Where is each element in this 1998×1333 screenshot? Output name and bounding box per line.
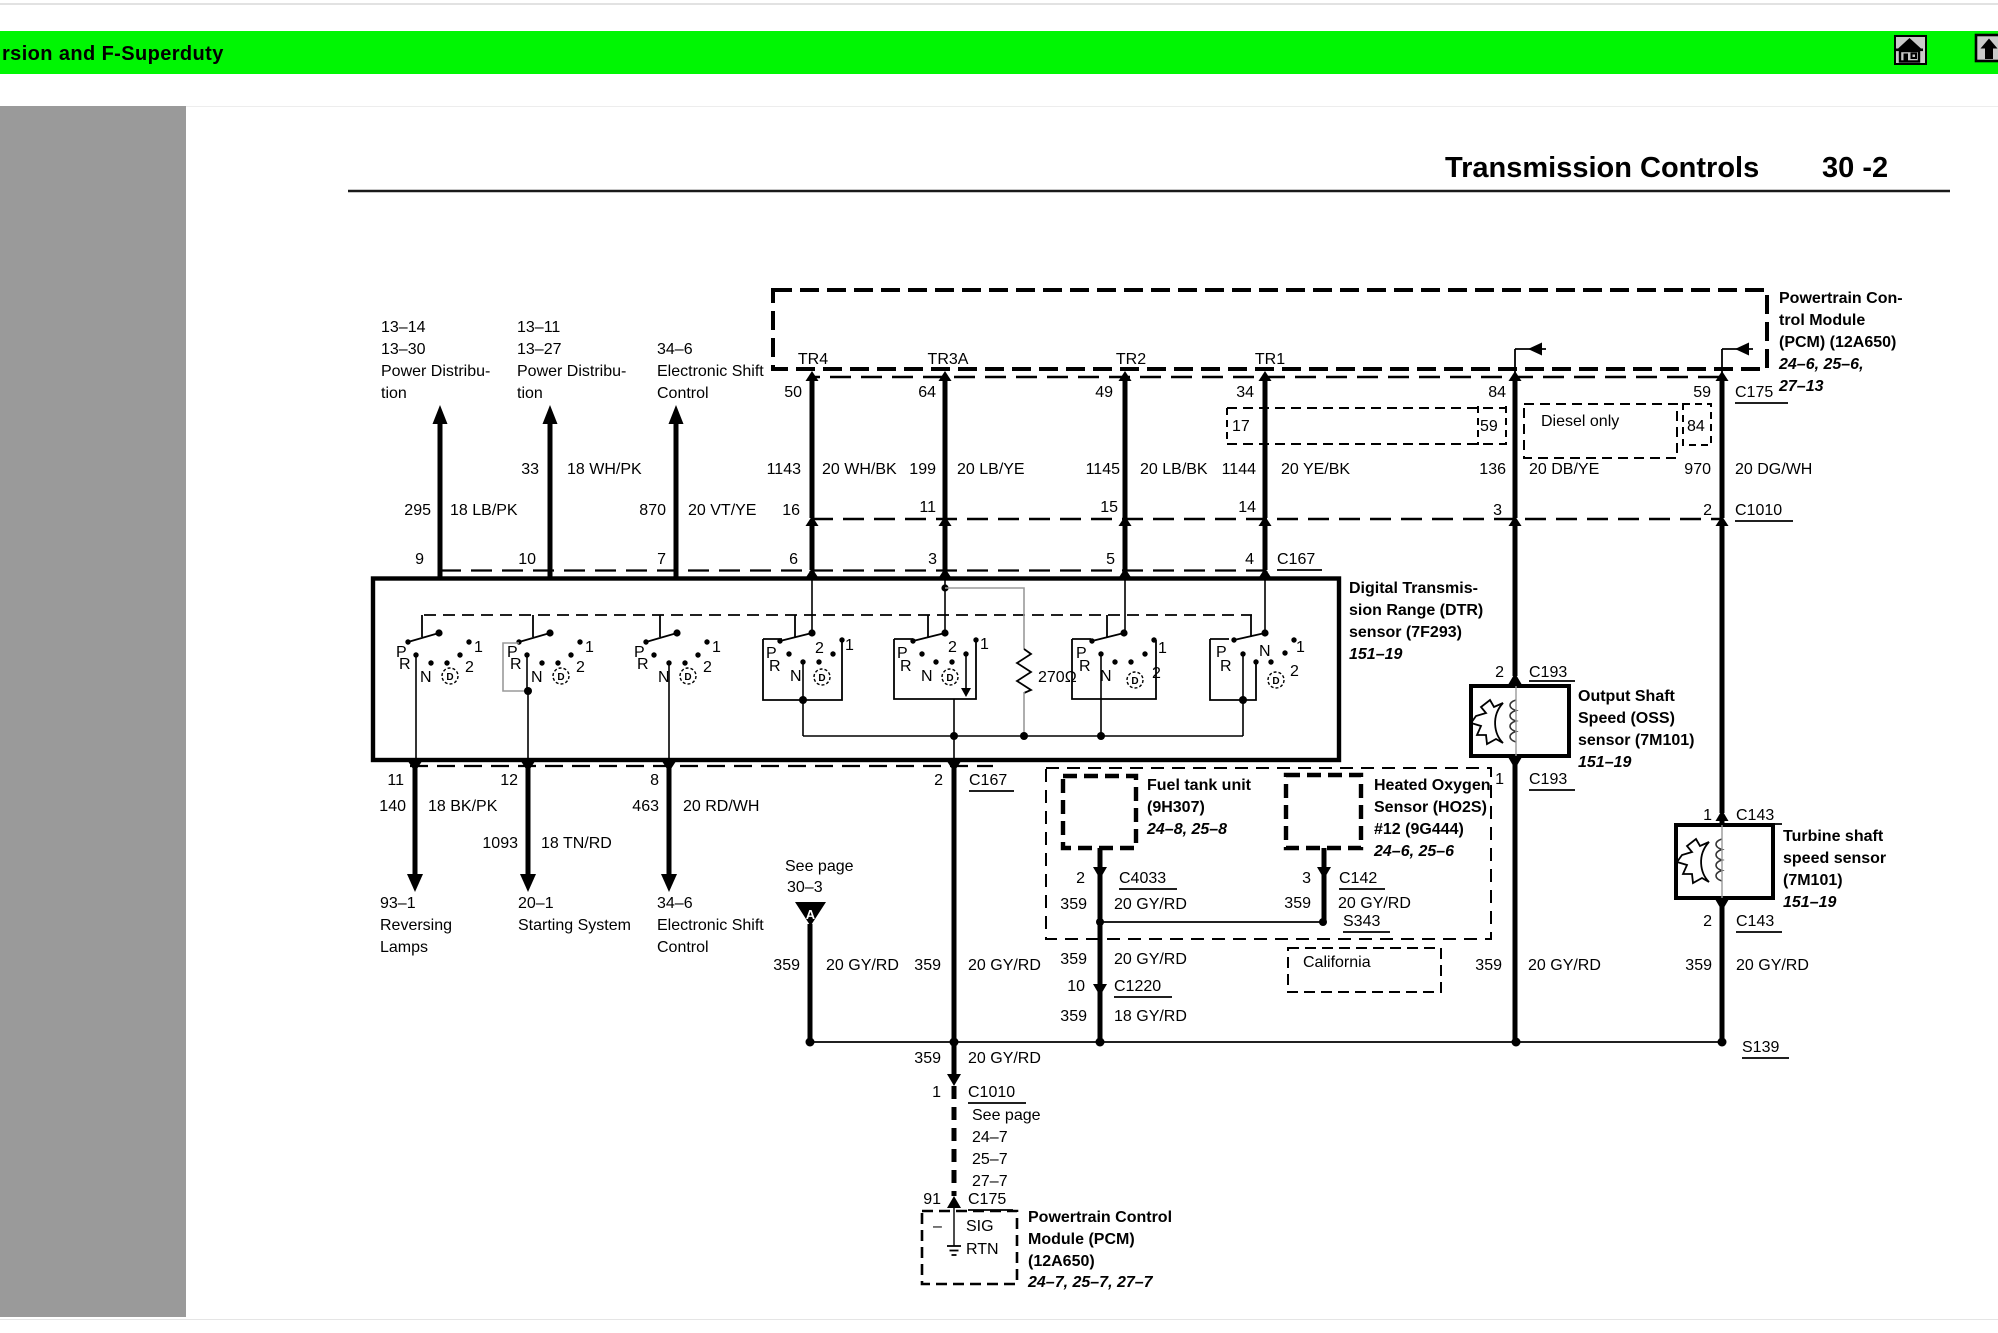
svg-text:N: N [921,668,933,685]
svg-text:30 -2: 30 -2 [1822,152,1888,184]
svg-text:270Ω: 270Ω [1038,669,1077,686]
svg-text:20 GY/RD: 20 GY/RD [1338,895,1411,912]
svg-text:151–19: 151–19 [1349,646,1402,663]
svg-text:Module (PCM): Module (PCM) [1028,1231,1135,1248]
svg-text:C175: C175 [1735,384,1773,401]
svg-text:C167: C167 [1277,551,1315,568]
svg-text:2: 2 [465,659,474,676]
svg-text:20 VT/YE: 20 VT/YE [688,502,756,519]
connector C143 label (top) [1736,807,1782,824]
svg-text:359: 359 [1284,895,1311,912]
pin 84 (diesel) dashed box [1683,404,1711,445]
svg-text:870: 870 [639,502,666,519]
connector C175 pin arrow up [947,1196,961,1208]
connector C1220 label [1114,978,1172,997]
up-arrow button (cut at right edge) [1976,35,1998,61]
connector C167 label (top) [1277,551,1322,570]
svg-text:C193: C193 [1529,771,1567,788]
connector C175 label (bottom) [968,1191,1013,1210]
svg-text:N: N [790,668,802,685]
green header bar [0,31,1998,74]
wire from node A (359 20 GY/RD) [808,924,813,1042]
node junction A-bus [806,1038,815,1047]
wire to Electronic Shift Control (463 20 RD/WH) [661,762,677,892]
svg-text:136: 136 [1479,461,1506,478]
wire OSS signal from PCM pin 84 with continuation flag [1509,343,1547,687]
svg-text:24–6, 25–6: 24–6, 25–6 [1373,843,1454,860]
value label circuit 1145 20 LB/BK [1086,461,1208,478]
connector C167 dashed line (top) [440,569,1266,571]
svg-text:TR1: TR1 [1255,351,1285,368]
wire to Electronic Shift Control (circuit 870 20 VT/YE) with up arrow [669,405,684,577]
svg-text:(PCM) (12A650): (PCM) (12A650) [1779,334,1896,351]
wire SW7 R-contact to resistor bus end [1242,654,1244,736]
svg-text:20 GY/RD: 20 GY/RD [1114,896,1187,913]
svg-text:2: 2 [576,659,585,676]
svg-text:359: 359 [1060,896,1087,913]
wire TSS signal from PCM pin 59 with continuation flag [1716,343,1754,826]
svg-text:34: 34 [1236,384,1254,401]
svg-text:2: 2 [1495,664,1504,681]
svg-text:15: 15 [1100,499,1118,516]
svg-text:34–6: 34–6 [657,895,693,912]
svg-text:R: R [399,656,411,673]
svg-text:18 TN/RD: 18 TN/RD [541,835,612,852]
home icon glyph [1896,38,1923,62]
svg-text:5: 5 [1106,551,1115,568]
svg-text:20 GY/RD: 20 GY/RD [968,957,1041,974]
node 93-1 Reversing Lamps label [380,895,452,956]
svg-text:13–27: 13–27 [517,341,562,358]
wire bus to PCM SIG RTN [952,1042,957,1078]
value label circuit 33 18 WH/PK [521,461,642,478]
svg-text:Diesel only: Diesel only [1541,413,1619,430]
svg-text:sensor (7M101): sensor (7M101) [1578,732,1695,749]
diesel-only alternate pins dashed box with pins 17 and 59 [1227,406,1506,445]
svg-text:2: 2 [815,640,824,657]
node junction fuel-bus [1096,1038,1105,1047]
svg-text:1: 1 [1296,639,1305,656]
OSS sensor label [1578,688,1695,771]
svg-text:C1010: C1010 [1735,502,1782,519]
TSS gear icon [1677,839,1709,883]
svg-text:49: 49 [1095,384,1113,401]
svg-text:1: 1 [845,637,854,654]
svg-text:S139: S139 [1742,1039,1779,1056]
svg-text:59: 59 [1693,384,1711,401]
svg-text:See page: See page [972,1107,1041,1124]
svg-text:D: D [446,672,453,683]
svg-text:Powertrain Control: Powertrain Control [1028,1209,1172,1226]
svg-text:D: D [557,672,564,683]
svg-text:2: 2 [703,659,712,676]
fuel/HO2S outer dashed boundary [1046,768,1491,939]
svg-text:20 GY/RD: 20 GY/RD [826,957,899,974]
svg-text:2: 2 [1152,665,1161,682]
svg-text:N: N [420,669,432,686]
svg-text:sensor (7F293): sensor (7F293) [1349,624,1462,641]
node 34-6 Electronic Shift Control label [657,895,764,956]
svg-text:24–7: 24–7 [972,1129,1008,1146]
wire TR3A from PCM pin 64 [939,371,952,633]
svg-text:Heated Oxygen: Heated Oxygen [1374,777,1490,794]
value label circuit 359 20 GY/RD (node A leg) [773,957,899,974]
svg-text:20 LB/YE: 20 LB/YE [957,461,1025,478]
connector C1010 label [1735,502,1793,521]
svg-text:18 BK/PK: 18 BK/PK [428,798,498,815]
svg-text:(9H307): (9H307) [1147,799,1205,816]
content top hairline [186,106,1998,107]
svg-text:1: 1 [980,636,989,653]
connector C1010 pin 1 arrow [947,1074,961,1086]
svg-text:10: 10 [1067,978,1085,995]
ground symbol [947,1246,961,1255]
value label circuit 1144 20 YE/BK [1222,461,1351,478]
svg-text:295: 295 [404,502,431,519]
svg-text:2: 2 [1703,913,1712,930]
svg-text:140: 140 [379,798,406,815]
svg-text:Lamps: Lamps [380,939,428,956]
svg-text:20 WH/BK: 20 WH/BK [822,461,897,478]
svg-text:Turbine shaft: Turbine shaft [1783,828,1884,845]
svg-text:Control: Control [657,939,709,956]
svg-text:Transmission Controls: Transmission Controls [1445,152,1759,184]
svg-text:24–6, 25–6,: 24–6, 25–6, [1778,356,1864,373]
switch SW6 (TR2) [1072,615,1167,699]
node SW7 output on box edge [1239,696,1247,704]
svg-text:24–7, 25–7, 27–7: 24–7, 25–7, 27–7 [1027,1274,1154,1291]
switch SW5 (TR3A) [894,615,989,699]
svg-text:18 WH/PK: 18 WH/PK [567,461,642,478]
svg-text:93–1: 93–1 [380,895,416,912]
wire SW2 output to pin 12 [527,691,529,762]
fuel tank unit (9H307) dashed box [1063,776,1136,848]
svg-text:sion Range (DTR): sion Range (DTR) [1349,602,1483,619]
svg-text:1: 1 [712,639,721,656]
svg-text:Electronic Shift: Electronic Shift [657,917,764,934]
PCM bottom label [1027,1209,1172,1291]
value label circuit 359 20 GY/RD (fuel) [1060,896,1187,913]
switch SW2 (starting system contact) [507,615,594,686]
wire dashed segment C1010 to C175 [952,1086,957,1196]
California note dashed box [1288,948,1441,992]
svg-text:151–19: 151–19 [1578,754,1631,771]
node HO2S splice junction [1319,918,1327,926]
switch SW3 (electronic shift control contact) [634,615,721,686]
svg-text:17: 17 [1232,418,1250,435]
svg-text:11: 11 [919,499,936,516]
svg-text:18 LB/PK: 18 LB/PK [450,502,518,519]
svg-text:R: R [900,658,912,675]
svg-text:970: 970 [1684,461,1711,478]
top hairline [0,3,1998,5]
svg-text:Digital Transmis-: Digital Transmis- [1349,580,1478,597]
wire to Reversing Lamps (140 18 BK/PK) [407,762,423,892]
OSS gear icon [1471,700,1503,744]
svg-text:C143: C143 [1736,807,1774,824]
svg-text:N: N [658,669,670,686]
svg-text:trol Module: trol Module [1779,312,1865,329]
TSS coil icon [1716,839,1722,881]
wire SW5 output to C167 pin 2 [953,699,955,762]
svg-text:TR4: TR4 [798,351,828,368]
svg-text:SIG: SIG [966,1218,994,1235]
svg-text:C143: C143 [1736,913,1774,930]
svg-text:Power Distribu-: Power Distribu- [517,363,626,380]
svg-text:Fuel tank unit: Fuel tank unit [1147,777,1252,794]
node junction SIGRTN-bus [950,1038,959,1047]
svg-text:14: 14 [1238,499,1256,516]
PCM SIG RTN dashed box [922,1211,1017,1284]
wire SW2 P-contact gray strap [503,643,528,691]
svg-text:C4033: C4033 [1119,870,1166,887]
svg-text:C142: C142 [1339,870,1377,887]
svg-text:1: 1 [1703,807,1712,824]
svg-text:#12 (9G444): #12 (9G444) [1374,821,1464,838]
node bus-resistor [1020,732,1028,740]
value label circuit 359 20 GY/RD (TSS leg) [1685,957,1809,974]
svg-text:27–7: 27–7 [972,1173,1008,1190]
svg-text:91: 91 [923,1191,941,1208]
wire TR1 from PCM pin 34 [1259,371,1272,633]
svg-text:20 GY/RD: 20 GY/RD [968,1050,1041,1067]
HO2S sensor (9G444) dashed box [1286,775,1361,848]
value label circuit 359 20 GY/RD (HO2S) [1284,895,1411,912]
svg-text:359: 359 [1475,957,1502,974]
svg-text:C167: C167 [969,772,1007,789]
value label circuit 359 20 GY/RD (C167 leg) [914,957,1041,974]
svg-text:R: R [637,656,649,673]
connector C167 label (bottom) [969,772,1014,791]
connector C175 dashed line [812,376,1722,378]
connector C167 dashed line (bottom) [410,765,993,767]
value label circuit 136 20 DB/YE [1479,461,1599,478]
svg-text:Output Shaft: Output Shaft [1578,688,1676,705]
svg-text:speed sensor: speed sensor [1783,850,1886,867]
node junction TSS-bus [1718,1038,1727,1047]
svg-text:20 LB/BK: 20 LB/BK [1140,461,1208,478]
svg-text:463: 463 [632,798,659,815]
svg-text:20 RD/WH: 20 RD/WH [683,798,759,815]
svg-text:C175: C175 [968,1191,1006,1208]
svg-text:1: 1 [1495,771,1504,788]
value label circuit 140 18 BK/PK [379,798,497,815]
svg-text:A: A [806,907,816,922]
header text [2,43,224,66]
wire to Starting System (1093 18 TN/RD) [520,762,536,892]
OSS sensor box (7M101) [1471,686,1569,756]
svg-text:Starting System: Starting System [518,917,631,934]
wire inside PCM to ground [953,1208,955,1246]
mechanical linkage dashed line [424,614,1252,616]
svg-text:50: 50 [784,384,802,401]
wire SW2 R-contact to junction [526,655,528,691]
wire TSS to splice S139 [1720,906,1725,1042]
connector C142 label [1339,870,1385,889]
svg-text:8: 8 [650,772,659,789]
svg-text:(12A650): (12A650) [1028,1253,1095,1270]
TSS sensor label [1783,828,1886,911]
svg-text:S343: S343 [1343,913,1380,930]
wire SW4 N-contact to resistor bus [802,662,804,736]
value label circuit 463 20 RD/WH [632,798,759,815]
svg-text:6: 6 [789,551,798,568]
svg-text:20 DG/WH: 20 DG/WH [1735,461,1812,478]
svg-text:Speed (OSS): Speed (OSS) [1578,710,1675,727]
value label circuit 295 18 LB/PK [404,502,518,519]
svg-text:TR3A: TR3A [928,351,969,368]
svg-text:TR2: TR2 [1116,351,1146,368]
svg-text:20 GY/RD: 20 GY/RD [1736,957,1809,974]
svg-text:Control: Control [657,385,709,402]
svg-text:R: R [510,656,522,673]
svg-text:2: 2 [1290,663,1299,680]
node 34-6 Electronic Shift Control label [657,341,764,402]
HO2S label [1373,777,1490,860]
svg-text:359: 359 [914,1050,941,1067]
svg-text:1: 1 [474,639,483,656]
svg-text:1144: 1144 [1222,461,1257,478]
wire SW6 R-contact to resistor bus [1100,654,1102,736]
svg-text:California: California [1303,954,1371,971]
svg-text:3: 3 [1493,502,1502,519]
wire OSS to splice S139 [1513,764,1518,1042]
svg-text:7: 7 [657,551,666,568]
node 20-1 Starting System label [518,895,631,934]
value label circuit 970 20 DG/WH [1684,461,1812,478]
svg-text:64: 64 [918,384,936,401]
svg-text:2: 2 [1076,870,1085,887]
svg-text:359: 359 [1685,957,1712,974]
svg-text:199: 199 [909,461,936,478]
svg-text:33: 33 [521,461,539,478]
svg-text:R: R [1079,658,1091,675]
title rule [348,190,1950,192]
svg-text:RTN: RTN [966,1241,999,1258]
svg-text:1093: 1093 [482,835,518,852]
wire splice S343 horizontal [1100,921,1323,923]
svg-text:84: 84 [1488,384,1506,401]
value label circuit 359 20 GY/RD (to C1010) [914,1050,1041,1067]
wire gray tap to resistor R1 [945,588,1024,649]
switch SW7 (TR1) [1210,615,1305,700]
connector C1220 arrow [1093,984,1107,996]
connector C143 label (bottom) [1736,913,1782,932]
switch SW4 (TR4) [763,615,854,700]
connector C1010 label (bottom) [968,1084,1026,1103]
svg-text:2: 2 [934,772,943,789]
wire HO2S to splice S343 (359 20 GY/RD) [1317,848,1331,920]
svg-text:tion: tion [517,385,543,402]
svg-text:4: 4 [1245,551,1254,568]
svg-text:D: D [1272,676,1279,687]
svg-text:See page: See page [785,858,854,875]
svg-text:C1010: C1010 [968,1084,1015,1101]
svg-text:59: 59 [1480,418,1498,435]
svg-text:3: 3 [1302,870,1311,887]
svg-text:13–11: 13–11 [517,319,560,336]
svg-text:359: 359 [1060,1008,1087,1025]
wire gray through OSS box [1515,686,1517,756]
TSS sensor box (7M101) [1676,825,1773,898]
see page 24-7 25-7 27-7 note [972,1107,1041,1190]
svg-text:359: 359 [914,957,941,974]
value label circuit 359 20 GY/RD (OSS leg) [1475,957,1601,974]
svg-text:D: D [1131,676,1138,687]
svg-text:tion: tion [381,385,407,402]
wire fuel leg down to bus [1098,922,1103,1042]
node resistor tap on TR3A wire [941,584,948,591]
svg-text:Power Distribu-: Power Distribu- [381,363,490,380]
svg-text:C1220: C1220 [1114,978,1161,995]
left gray sidebar [0,106,186,1317]
wire fuel tank unit to splice (359 20 GY/RD) [1093,848,1107,922]
svg-text:359: 359 [773,957,800,974]
connector C1010 dashed line [812,518,1722,520]
svg-text:1: 1 [585,639,594,656]
svg-text:N: N [1259,643,1271,660]
wire gray through TSS box [1721,825,1723,898]
DTR sensor box (7F293) [373,579,1339,761]
svg-text:16: 16 [782,502,800,519]
svg-text:20 GY/RD: 20 GY/RD [1114,951,1187,968]
resistor R1 270 ohm [1017,649,1031,693]
svg-text:1: 1 [932,1084,941,1101]
wire SW3 N-contact to pin 8 [668,663,670,762]
value label circuit 359 20 GY/RD (below S343) [1060,951,1187,968]
svg-text:84: 84 [1687,418,1705,435]
svg-text:1: 1 [1158,640,1167,657]
svg-text:1143: 1143 [767,461,802,478]
value label circuit 1143 20 WH/BK [767,461,897,478]
svg-text:30–3: 30–3 [787,879,823,896]
home button [1894,35,1927,65]
svg-text:20 DB/YE: 20 DB/YE [1529,461,1599,478]
node fuel splice junction [1096,918,1104,926]
PCM top module label [1778,290,1903,395]
svg-text:20–1: 20–1 [518,895,554,912]
svg-text:27–13: 27–13 [1778,378,1824,395]
wire SIG RTN from C167 pin 2 [948,762,961,1042]
svg-text:Sensor (HO2S): Sensor (HO2S) [1374,799,1487,816]
wire to Power Distribution (circuit 295 18 LB/PK) with up arrow [433,405,448,577]
connector C193 label (top) [1529,664,1575,681]
svg-text:10: 10 [518,551,536,568]
svg-text:11: 11 [387,772,404,789]
connector C4033 label [1119,870,1177,889]
value label circuit 1093 18 TN/RD [482,835,611,852]
wire to Power Distribution (circuit 33 18 WH/PK) with up arrow [543,405,558,577]
wire internal common bus [803,735,1243,737]
node A see page 30-3 [785,858,854,926]
svg-text:24–8, 25–8: 24–8, 25–8 [1146,821,1227,838]
wire splice bus S139 [810,1041,1722,1043]
DTR sensor label [1349,580,1483,663]
svg-text:–: – [933,1218,942,1235]
value label circuit 199 20 LB/YE [909,461,1024,478]
svg-text:R: R [769,658,781,675]
bottom hairline [0,1319,1998,1320]
node junction OSS-bus [1512,1038,1521,1047]
node SW4 output on box edge [799,696,807,704]
connector C193 label (bottom) [1529,771,1575,790]
svg-text:1145: 1145 [1086,461,1121,478]
node SW2 output junction [524,687,532,695]
splice S139 label [1742,1039,1789,1058]
svg-text:13–14: 13–14 [381,319,426,336]
svg-text:D: D [684,672,691,683]
fuel tank unit label [1146,777,1252,838]
